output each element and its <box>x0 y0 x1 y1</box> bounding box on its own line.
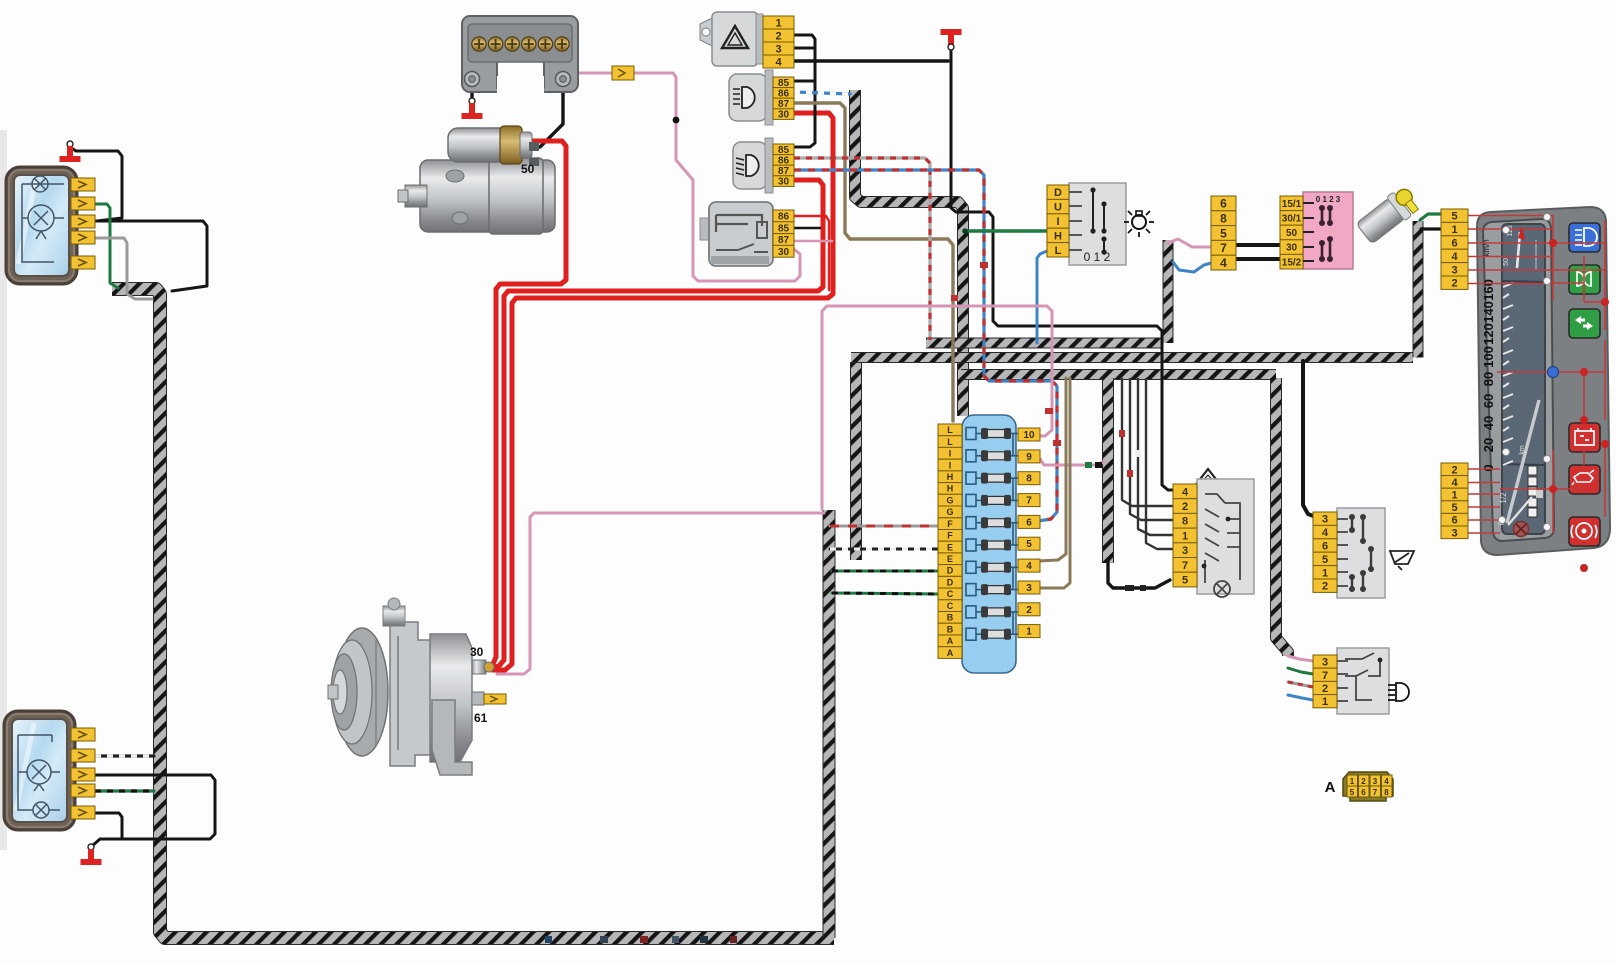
svg-text:8: 8 <box>1182 516 1188 528</box>
svg-text:50: 50 <box>521 162 535 176</box>
svg-text:60: 60 <box>1481 394 1496 408</box>
svg-text:15/1: 15/1 <box>1282 199 1302 210</box>
svg-text:L: L <box>947 425 953 435</box>
svg-text:3: 3 <box>1026 583 1032 594</box>
svg-text:5: 5 <box>1451 211 1457 223</box>
svg-text:F: F <box>947 531 953 541</box>
svg-text:I: I <box>949 460 952 470</box>
svg-text:6: 6 <box>1322 541 1328 553</box>
svg-text:1: 1 <box>1350 777 1355 786</box>
svg-text:5: 5 <box>1451 502 1457 514</box>
svg-text:7: 7 <box>1322 670 1328 682</box>
svg-text:3: 3 <box>775 44 781 56</box>
svg-text:2: 2 <box>1322 683 1328 695</box>
svg-text:H: H <box>1054 230 1062 242</box>
svg-text:6: 6 <box>1451 515 1457 527</box>
svg-text:7: 7 <box>1220 241 1227 255</box>
svg-text:4: 4 <box>1451 251 1458 263</box>
svg-text:4: 4 <box>1026 561 1032 572</box>
svg-text:6: 6 <box>1220 197 1227 211</box>
svg-text:15/2: 15/2 <box>1282 257 1302 268</box>
svg-text:5: 5 <box>1220 226 1227 240</box>
svg-text:B: B <box>947 613 954 623</box>
svg-text:1: 1 <box>1451 490 1457 502</box>
svg-text:4: 4 <box>1451 477 1458 489</box>
svg-text:3: 3 <box>1451 264 1457 276</box>
svg-text:D: D <box>1054 187 1062 199</box>
svg-text:5: 5 <box>1182 575 1188 587</box>
svg-text:50: 50 <box>1286 228 1298 239</box>
svg-text:7: 7 <box>1182 560 1188 572</box>
svg-text:5: 5 <box>1350 788 1355 797</box>
svg-text:B: B <box>947 624 954 634</box>
svg-text:C: C <box>947 601 954 611</box>
svg-text:61: 61 <box>474 711 488 725</box>
svg-text:86: 86 <box>778 212 790 223</box>
svg-text:1: 1 <box>1026 627 1032 638</box>
svg-text:L: L <box>947 437 953 447</box>
svg-text:1/2: 1/2 <box>1499 492 1508 504</box>
svg-text:H: H <box>947 472 954 482</box>
svg-text:1: 1 <box>1182 530 1188 542</box>
svg-text:4: 4 <box>1182 486 1189 498</box>
svg-text:87: 87 <box>778 235 790 246</box>
svg-text:G: G <box>946 507 953 517</box>
svg-text:50: 50 <box>1503 258 1510 266</box>
svg-text:40: 40 <box>1481 416 1496 430</box>
svg-text:3: 3 <box>1451 527 1457 539</box>
svg-text:80: 80 <box>1481 372 1496 386</box>
svg-text:0: 0 <box>1481 464 1496 471</box>
svg-text:L: L <box>1055 245 1062 257</box>
svg-text:km/h: km/h <box>1482 239 1491 256</box>
svg-text:1: 1 <box>775 18 781 30</box>
svg-text:6: 6 <box>1451 238 1457 250</box>
svg-text:F: F <box>947 519 953 529</box>
svg-text:G: G <box>946 495 953 505</box>
svg-text:30: 30 <box>470 645 484 659</box>
svg-text:E: E <box>947 542 953 552</box>
svg-text:2: 2 <box>1182 501 1188 513</box>
svg-text:A: A <box>1325 779 1336 796</box>
svg-text:2: 2 <box>1361 777 1366 786</box>
svg-text:100: 100 <box>1481 346 1496 368</box>
svg-text:2: 2 <box>1451 464 1457 476</box>
svg-text:20: 20 <box>1481 438 1496 452</box>
svg-text:0 1 2: 0 1 2 <box>1084 250 1111 264</box>
svg-text:9: 9 <box>1026 452 1032 463</box>
svg-text:4: 4 <box>1220 256 1227 270</box>
svg-text:4: 4 <box>775 57 782 69</box>
svg-text:I: I <box>1056 216 1059 228</box>
svg-text:30: 30 <box>778 177 790 188</box>
svg-text:85: 85 <box>778 223 790 234</box>
svg-text:8: 8 <box>1026 474 1032 485</box>
svg-text:6: 6 <box>1361 788 1366 797</box>
svg-text:1: 1 <box>1451 224 1457 236</box>
svg-text:2: 2 <box>1451 278 1457 290</box>
svg-text:10: 10 <box>1023 430 1035 441</box>
svg-text:7: 7 <box>1373 788 1378 797</box>
svg-text:160: 160 <box>1481 279 1496 301</box>
svg-text:D: D <box>947 566 954 576</box>
svg-text:8: 8 <box>1220 212 1227 226</box>
svg-text:2: 2 <box>775 31 781 43</box>
svg-text:A: A <box>947 636 954 646</box>
svg-text:30: 30 <box>1286 243 1298 254</box>
svg-text:C: C <box>947 589 954 599</box>
svg-text:U: U <box>1054 202 1062 214</box>
svg-text:3: 3 <box>1322 514 1328 526</box>
svg-text:1: 1 <box>1322 696 1328 708</box>
svg-text:5: 5 <box>1026 539 1032 550</box>
svg-text:I: I <box>949 449 952 459</box>
svg-text:3: 3 <box>1182 545 1188 557</box>
svg-text:km: km <box>1519 445 1526 455</box>
svg-text:5: 5 <box>1322 554 1328 566</box>
svg-text:D: D <box>947 578 954 588</box>
svg-text:H: H <box>947 484 954 494</box>
svg-text:30/1: 30/1 <box>1282 214 1302 225</box>
svg-text:E: E <box>947 554 953 564</box>
svg-text:0 1 2 3: 0 1 2 3 <box>1316 195 1341 204</box>
svg-text:4: 4 <box>1384 777 1389 786</box>
svg-text:30: 30 <box>778 247 790 258</box>
svg-text:140: 140 <box>1481 301 1496 323</box>
svg-text:7: 7 <box>1026 496 1032 507</box>
svg-text:4: 4 <box>1322 527 1329 539</box>
svg-text:3: 3 <box>1373 777 1378 786</box>
svg-text:1: 1 <box>1322 567 1328 579</box>
svg-text:2: 2 <box>1322 581 1328 593</box>
svg-text:120: 120 <box>1481 323 1496 345</box>
svg-text:A: A <box>947 648 954 658</box>
svg-text:3: 3 <box>1322 657 1328 669</box>
svg-text:8: 8 <box>1384 788 1389 797</box>
svg-text:6: 6 <box>1026 517 1032 528</box>
svg-text:2: 2 <box>1026 605 1032 616</box>
svg-text:30: 30 <box>778 110 790 121</box>
